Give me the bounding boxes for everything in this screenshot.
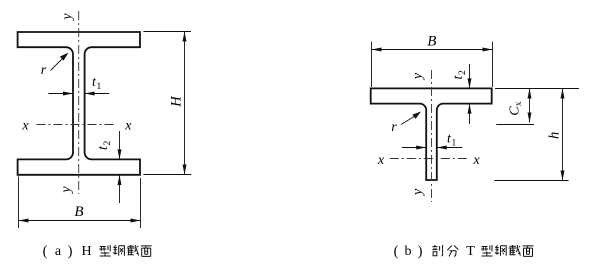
Cx centroid short line <box>496 124 534 126</box>
svg-text:B: B <box>74 204 83 220</box>
svg-text:2: 2 <box>103 141 113 146</box>
svg-text:C: C <box>508 106 523 116</box>
svg-text:r: r <box>391 120 397 135</box>
svg-text:1: 1 <box>452 139 457 149</box>
label t2 (fig b, rotated) <box>451 70 468 80</box>
型 <box>481 245 493 256</box>
svg-text:y: y <box>59 186 74 195</box>
分 <box>447 245 458 256</box>
型 <box>99 245 111 256</box>
svg-text:y: y <box>410 72 425 81</box>
horizontal centerline x-x of T-section <box>390 158 469 160</box>
截 <box>509 245 521 256</box>
svg-text:x: x <box>21 118 29 133</box>
h dimension <box>562 89 564 181</box>
horizontal centerline x-x of H-beam <box>37 124 116 126</box>
caption (b) CJK 剖分 hand-drawn <box>432 245 458 256</box>
svg-text:(: ( <box>43 244 48 260</box>
svg-text:(: ( <box>394 244 399 260</box>
H dimension (overall depth, fig a) <box>143 31 191 33</box>
extension line at web bottom level (fig b right) <box>494 180 568 182</box>
extension line at flange top level (fig b right) <box>495 88 579 90</box>
钢 <box>113 245 124 256</box>
svg-text:2: 2 <box>458 70 468 75</box>
面 <box>141 246 152 257</box>
剖 <box>432 245 442 256</box>
截 <box>127 245 139 256</box>
svg-text:x: x <box>472 153 480 168</box>
svg-text:y: y <box>60 13 75 22</box>
svg-text:b: b <box>405 244 412 259</box>
Cx dimension <box>529 89 531 123</box>
B dimension (fig b, top) <box>371 42 373 87</box>
svg-text:r: r <box>41 63 47 78</box>
B dimension (flange width, fig a) <box>18 177 20 229</box>
t2 dimension (flange thickness, fig a) <box>119 131 121 159</box>
label t2 (fig a, rotated) <box>96 141 113 151</box>
vertical centerline y-y of H-beam <box>78 11 80 194</box>
t2 dimension (fig b) <box>469 64 471 88</box>
svg-text:x: x <box>377 153 385 168</box>
svg-text:1: 1 <box>97 82 102 92</box>
vertical centerline y-y of T-section <box>431 70 433 202</box>
钢 <box>495 245 506 256</box>
svg-text:a: a <box>55 244 62 259</box>
svg-text:x: x <box>124 118 132 133</box>
caption (b) CJK 型钢截面 hand-drawn (second copy) <box>481 245 534 256</box>
svg-text:): ) <box>68 244 73 260</box>
svg-text:x: x <box>514 101 524 106</box>
svg-text:T: T <box>466 244 475 259</box>
H-beam section outline (figure a) <box>18 32 140 175</box>
T-section outline (figure b) <box>371 88 492 180</box>
label Cx (rotated) <box>508 101 525 116</box>
svg-text:H: H <box>81 244 91 259</box>
svg-text:): ) <box>418 244 423 260</box>
svg-text:B: B <box>427 34 436 50</box>
svg-text:H: H <box>169 95 185 108</box>
t1 dimension (web thickness, fig a) <box>48 93 73 95</box>
svg-text:h: h <box>547 132 563 139</box>
面 <box>523 246 534 257</box>
caption (a) CJK 型钢截面 hand-drawn <box>99 245 152 256</box>
t1 dimension (fig b) <box>402 147 426 149</box>
svg-text:y: y <box>411 188 426 197</box>
